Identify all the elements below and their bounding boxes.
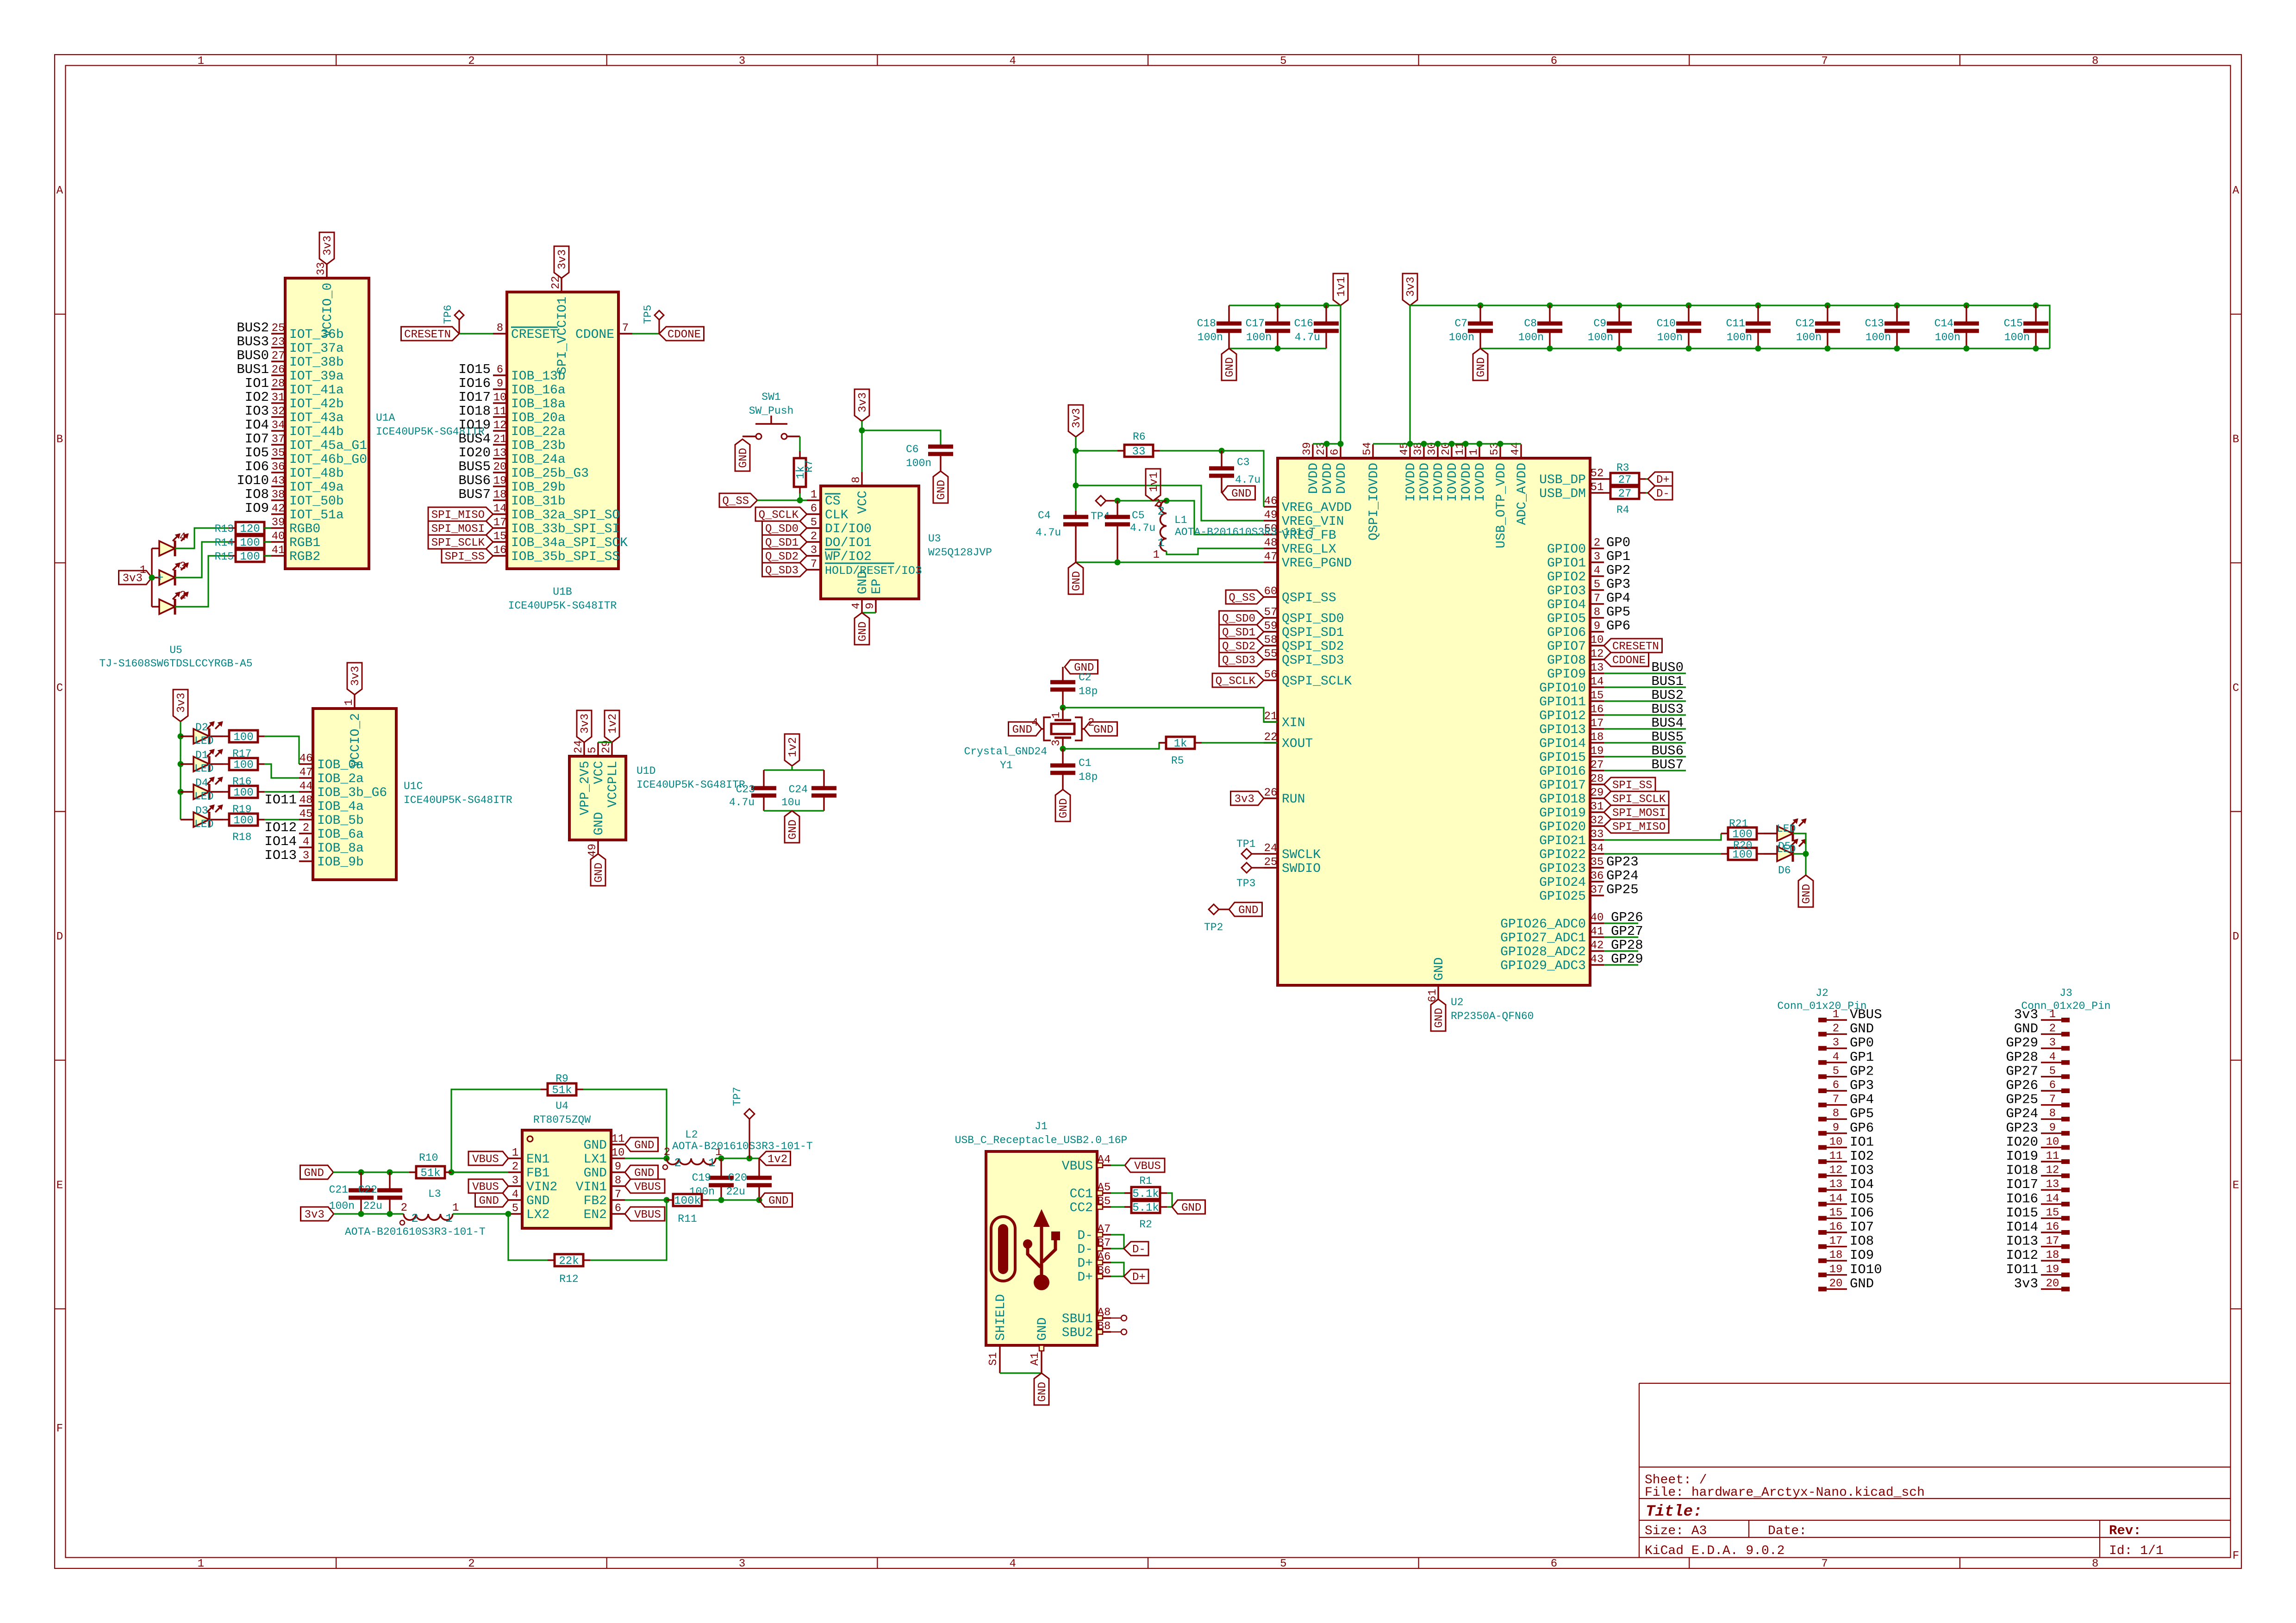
J3 pin 1 3v3 <box>2041 1008 2070 1022</box>
svg-text:SPI_SS: SPI_SS <box>445 551 485 563</box>
net label IO5 <box>245 445 269 460</box>
svg-text:C8: C8 <box>1524 317 1537 330</box>
wire D3/R18 to U1C pin 45 <box>264 819 299 820</box>
U2 pin 39 DVDD <box>1301 442 1321 494</box>
svg-text:18: 18 <box>2046 1249 2059 1262</box>
svg-text:GPIO21: GPIO21 <box>1539 834 1586 848</box>
power symbol 3v3 at VREG <box>1068 405 1083 437</box>
svg-text:6: 6 <box>1833 1079 1839 1092</box>
svg-text:LX1: LX1 <box>584 1152 607 1167</box>
U2 pin 18 GPIO14 <box>1539 731 1604 751</box>
net label IO10 <box>237 473 269 488</box>
svg-text:CLK: CLK <box>825 508 849 522</box>
svg-text:IO16: IO16 <box>458 376 491 391</box>
svg-text:BUS3: BUS3 <box>237 334 269 349</box>
junction D5/D6 cathodes <box>1803 851 1809 857</box>
junction on LED rail <box>178 761 184 767</box>
svg-text:59: 59 <box>1264 620 1278 633</box>
wire D+ pins to label <box>1111 1262 1124 1276</box>
svg-text:18: 18 <box>493 489 507 501</box>
J2 pin 17 IO8 <box>1818 1235 1847 1249</box>
net label GP3 at J2 pin 6 <box>1850 1078 1874 1093</box>
svg-text:SWDIO: SWDIO <box>1282 862 1321 876</box>
power symbol 3v3 at RUN pin <box>1231 791 1264 806</box>
net label VBUS at J2 pin 1 <box>1850 1007 1882 1022</box>
svg-text:HOLD/RESET/IO3: HOLD/RESET/IO3 <box>825 564 922 578</box>
svg-text:10: 10 <box>1591 634 1604 647</box>
svg-text:AOTA-B201610S3R3-101-T: AOTA-B201610S3R3-101-T <box>345 1226 486 1238</box>
U1D pin 5 VCC <box>586 742 606 784</box>
power symbol GND below U3 <box>855 613 869 645</box>
wire R5 to XOUT <box>1202 742 1278 743</box>
J3 pin 8 GP24 <box>2041 1107 2070 1121</box>
junction C22 bottom <box>387 1211 393 1217</box>
svg-text:U1B: U1B <box>553 586 572 598</box>
svg-text:QSPI_SS: QSPI_SS <box>1282 591 1336 605</box>
junction 3v3/R6 <box>1073 448 1079 454</box>
LED D3 <box>181 805 222 830</box>
power symbol 3v3 above U1C <box>347 663 362 695</box>
wire 3v3 rail over C7-C15 <box>1410 305 2050 348</box>
svg-text:IO7: IO7 <box>245 431 269 447</box>
svg-text:GPIO9: GPIO9 <box>1547 667 1586 682</box>
svg-text:GP0: GP0 <box>1606 535 1630 550</box>
svg-text:IOB_34a_SPI_SCK: IOB_34a_SPI_SCK <box>511 536 628 550</box>
svg-text:51k: 51k <box>420 1167 440 1180</box>
svg-text:40: 40 <box>272 530 285 543</box>
svg-text:GP28: GP28 <box>1611 938 1643 953</box>
svg-text:RUN: RUN <box>1282 792 1305 807</box>
svg-text:34: 34 <box>1591 842 1604 855</box>
svg-text:100n: 100n <box>1727 331 1752 343</box>
wire R10 to FB1 <box>451 1171 508 1173</box>
net label IO18 <box>458 404 491 419</box>
svg-text:C9: C9 <box>1593 317 1606 330</box>
junction C10 bottom <box>1686 346 1692 352</box>
svg-text:55: 55 <box>1264 648 1278 660</box>
net label IO7 at J2 pin 16 <box>1850 1219 1874 1235</box>
J1 pin A6 D+ <box>1077 1251 1111 1271</box>
svg-text:CRESETN: CRESETN <box>404 329 451 341</box>
junction C22 top <box>387 1169 393 1175</box>
capacitor C24 value 10u <box>781 770 836 811</box>
svg-text:3v3: 3v3 <box>1071 408 1083 428</box>
svg-text:GP23: GP23 <box>2006 1120 2038 1136</box>
svg-text:A1: A1 <box>1029 1352 1042 1366</box>
capacitor C5 value 4.7u <box>1105 501 1155 562</box>
net label GP29 at J3 pin 3 <box>2006 1035 2038 1051</box>
svg-text:IOVDD: IOVDD <box>1432 463 1446 502</box>
net label GP1 at J2 pin 4 <box>1850 1050 1874 1065</box>
U1C pin 44 IOB_3b_G6 <box>299 780 387 800</box>
net label GP5 <box>1606 604 1630 620</box>
wire R6 left <box>1076 450 1125 451</box>
svg-text:D: D <box>2233 931 2239 943</box>
global label SPI_SCLK <box>1604 791 1669 806</box>
svg-text:10: 10 <box>1829 1136 1843 1148</box>
junction C9 bottom <box>1616 346 1622 352</box>
power symbol GND above C2 <box>1065 660 1098 674</box>
USB-C oval symbol inside J1 <box>991 1217 1015 1281</box>
svg-text:45: 45 <box>299 808 313 821</box>
U4 pin 8 VIN1 <box>576 1175 625 1194</box>
power tag GND at R1 R2 <box>1172 1200 1205 1214</box>
U2 pin 37 GPIO25 <box>1539 884 1604 904</box>
svg-text:C13: C13 <box>1865 317 1884 330</box>
svg-text:IOB_29b: IOB_29b <box>511 480 566 495</box>
svg-text:IOB_33b_SPI_SI: IOB_33b_SPI_SI <box>511 522 620 536</box>
svg-text:GP5: GP5 <box>1606 604 1630 620</box>
U3 pin 6 CLK <box>807 503 849 522</box>
J3 pin 13 IO17 <box>2041 1178 2070 1192</box>
svg-text:File: hardware_Arctyx-Nano.kic: File: hardware_Arctyx-Nano.kicad_sch <box>1645 1486 1925 1500</box>
junction C12 bottom <box>1825 346 1831 352</box>
svg-text:B: B <box>56 434 63 446</box>
svg-text:C20: C20 <box>728 1172 747 1184</box>
capacitor C9 value 100n <box>1588 305 1632 348</box>
U2 pin 12 GPIO8 <box>1547 648 1604 668</box>
svg-text:IO8: IO8 <box>245 487 269 502</box>
svg-text:14: 14 <box>493 503 507 515</box>
svg-text:R15: R15 <box>215 551 234 563</box>
J2 pin 1 VBUS <box>1818 1008 1847 1022</box>
microcontroller U2 RP2350A-QFN60 (symbol body) <box>1278 458 1590 985</box>
U2 pin 50 VREG_FB <box>1264 523 1336 543</box>
svg-text:18: 18 <box>1829 1249 1843 1262</box>
svg-text:GND: GND <box>1071 571 1083 591</box>
global label SPI_MISO <box>428 507 493 522</box>
svg-text:100n: 100n <box>1935 331 1960 343</box>
svg-text:BUS5: BUS5 <box>1651 729 1684 745</box>
svg-text:47: 47 <box>299 766 313 779</box>
svg-text:31: 31 <box>272 392 285 404</box>
svg-text:4: 4 <box>303 836 309 848</box>
svg-text:3: 3 <box>811 544 817 557</box>
U2 pin 59 QSPI_SD1 <box>1264 620 1344 640</box>
U1B pin 17 IOB_33b_SPI_SI <box>493 516 620 536</box>
svg-text:GPIO2: GPIO2 <box>1547 570 1586 585</box>
svg-text:BUS0: BUS0 <box>237 348 269 363</box>
net label GND at J2 pin 2 <box>1850 1021 1874 1037</box>
U1C reference and value <box>404 780 512 806</box>
wire LX1 to L2 <box>625 1157 667 1159</box>
power tag GND at U4 pin4 <box>475 1193 509 1207</box>
wire C2/crystal to XIN <box>1063 708 1278 722</box>
svg-text:2: 2 <box>468 1558 474 1570</box>
svg-text:IOB_6a: IOB_6a <box>317 827 364 842</box>
svg-text:1: 1 <box>452 1202 459 1214</box>
J2 pin 13 IO4 <box>1818 1178 1847 1192</box>
U2 pin 36 GPIO24 <box>1539 870 1604 890</box>
resistor R13 value 120 <box>215 522 271 535</box>
J3 pin 10 IO20 <box>2041 1136 2070 1150</box>
svg-text:D+: D+ <box>1077 1256 1093 1271</box>
svg-text:W25Q128JVP: W25Q128JVP <box>928 547 992 559</box>
svg-text:100: 100 <box>240 537 260 549</box>
svg-text:100: 100 <box>233 731 253 744</box>
junction at U5 common anode <box>149 575 155 581</box>
power symbol 1v2 above U1D <box>605 710 619 742</box>
svg-text:16: 16 <box>1829 1221 1843 1233</box>
svg-text:C21: C21 <box>329 1184 348 1196</box>
svg-text:GPIO1: GPIO1 <box>1547 556 1586 571</box>
svg-text:GND: GND <box>1181 1202 1201 1214</box>
svg-text:IOT_50b: IOT_50b <box>289 494 344 509</box>
net label IO14 at J3 pin 16 <box>2006 1219 2038 1235</box>
power symbol 1v1 at VREG output <box>1146 469 1160 501</box>
svg-text:IO14: IO14 <box>2006 1219 2038 1235</box>
svg-text:13: 13 <box>493 447 507 460</box>
U2 pin 22 XOUT <box>1264 731 1313 751</box>
svg-text:IO19: IO19 <box>458 417 491 433</box>
J2 pin 18 IO9 <box>1818 1249 1847 1263</box>
svg-text:1: 1 <box>811 489 817 501</box>
svg-text:51: 51 <box>1591 481 1604 494</box>
U1D pin 24 VPP_2V5 <box>573 740 593 815</box>
svg-text:IOB_24a: IOB_24a <box>511 453 566 467</box>
svg-text:38: 38 <box>272 489 285 501</box>
svg-text:BUS1: BUS1 <box>237 362 269 377</box>
svg-text:36: 36 <box>1591 870 1604 883</box>
svg-text:Y1: Y1 <box>1000 759 1013 771</box>
resistor R18 value 100 <box>211 814 265 843</box>
svg-text:12: 12 <box>1829 1164 1843 1177</box>
svg-text:5: 5 <box>2049 1065 2056 1077</box>
svg-text:4: 4 <box>1594 565 1600 577</box>
svg-text:49: 49 <box>1264 509 1278 522</box>
wire TP4/C5/1v1/L1 node <box>1117 500 1167 501</box>
U1A pin 34 IOT_44b <box>271 419 344 439</box>
junction LX1/L2/R9 <box>664 1156 670 1162</box>
svg-text:GND: GND <box>592 812 606 835</box>
svg-text:32: 32 <box>1591 815 1604 827</box>
svg-text:IOT_37a: IOT_37a <box>289 342 344 356</box>
junction IOVDD rail <box>1463 441 1469 447</box>
svg-text:GND: GND <box>1093 724 1113 736</box>
junction on LED rail <box>178 734 184 740</box>
inductor L1 AOTA-B201610S3R3-101-T <box>1153 497 1316 561</box>
junction FB2/R11 <box>664 1197 670 1203</box>
svg-text:1: 1 <box>708 1156 716 1170</box>
svg-text:C16: C16 <box>1294 317 1313 330</box>
U1C pin 46 IOB_0a <box>299 752 364 772</box>
svg-text:41: 41 <box>1591 926 1604 938</box>
svg-text:R2: R2 <box>1139 1219 1152 1231</box>
global label CDONE at GPIO8 <box>1604 653 1649 667</box>
U2 pin 16 GPIO12 <box>1539 703 1604 723</box>
svg-text:J3: J3 <box>2059 987 2072 999</box>
U1C pin 2 IOB_6a <box>299 822 364 842</box>
capacitor C15 value 100n <box>2004 305 2048 348</box>
svg-text:USB_OTP_VDD: USB_OTP_VDD <box>1494 463 1509 548</box>
global label Q_SD3 <box>1219 653 1264 667</box>
svg-text:16: 16 <box>1591 703 1604 716</box>
svg-text:9: 9 <box>1594 620 1600 633</box>
wire 3v3 to U3 VCC and C6 <box>862 421 941 472</box>
svg-text:13: 13 <box>2046 1178 2059 1191</box>
svg-text:Q_SD2: Q_SD2 <box>1222 640 1255 653</box>
svg-text:41: 41 <box>272 544 285 557</box>
U2 pin 29 GPIO18 <box>1539 787 1604 807</box>
U2 pin 38 IOVDD <box>1412 442 1432 502</box>
svg-text:R6: R6 <box>1133 431 1146 443</box>
U3 reference and value <box>928 533 992 559</box>
svg-text:100n: 100n <box>1796 331 1822 343</box>
wire L1 pin1 to VREG_LX <box>1167 548 1264 554</box>
U2 pin 7 GPIO4 <box>1547 592 1604 612</box>
svg-text:IO14: IO14 <box>264 834 297 849</box>
svg-text:Title:: Title: <box>1646 1503 1702 1521</box>
net label IO14 <box>264 834 297 849</box>
U2 pin 19 GPIO15 <box>1539 745 1604 765</box>
wire R13 to U1A <box>264 527 271 529</box>
svg-text:J2: J2 <box>1816 987 1828 999</box>
svg-text:1: 1 <box>445 1212 453 1225</box>
capacitor C20 value 22u <box>726 1158 772 1200</box>
wire R15 to U1A <box>264 555 271 556</box>
svg-text:7: 7 <box>2049 1094 2056 1106</box>
svg-text:C3: C3 <box>1237 456 1250 468</box>
svg-text:8: 8 <box>615 1175 621 1187</box>
svg-text:+: + <box>156 571 164 585</box>
svg-text:IO15: IO15 <box>2006 1205 2038 1220</box>
U2 pin 2 GPIO0 <box>1547 537 1604 557</box>
J1 pin A1 GND <box>1029 1318 1050 1373</box>
svg-text:4: 4 <box>1009 1558 1016 1570</box>
net label GP0 at J2 pin 3 <box>1850 1035 1874 1051</box>
svg-text:27: 27 <box>1618 474 1632 486</box>
U2 pin 51 USB_DM <box>1539 481 1604 501</box>
svg-text:VIN2: VIN2 <box>526 1180 557 1194</box>
junction C9 top <box>1616 303 1622 309</box>
J2 pin 10 IO1 <box>1818 1136 1847 1150</box>
svg-text:37: 37 <box>1591 884 1604 896</box>
svg-text:6: 6 <box>2049 1079 2056 1092</box>
svg-text:R11: R11 <box>678 1213 697 1225</box>
svg-text:GP2: GP2 <box>1606 563 1630 578</box>
wire U3 GND EP <box>862 612 876 613</box>
svg-text:3v3: 3v3 <box>857 392 869 412</box>
svg-text:GND: GND <box>634 1167 654 1180</box>
svg-text:GND: GND <box>584 1138 607 1153</box>
svg-text:56: 56 <box>1264 669 1278 681</box>
svg-text:CDONE: CDONE <box>1612 654 1646 667</box>
J3 pin 6 GP26 <box>2041 1079 2070 1093</box>
svg-text:U1C: U1C <box>404 780 423 792</box>
svg-text:GND: GND <box>304 1167 324 1180</box>
net label GP25 <box>1606 882 1639 897</box>
U2 pin 43 GPIO29_ADC3 <box>1500 953 1604 973</box>
svg-text:Q_SD0: Q_SD0 <box>1222 613 1255 625</box>
svg-text:17: 17 <box>1591 717 1604 730</box>
svg-text:SHIELD: SHIELD <box>994 1294 1008 1341</box>
svg-text:19: 19 <box>493 475 507 487</box>
U2 pin 58 QSPI_SD2 <box>1264 634 1344 654</box>
power tag GND at input caps <box>300 1165 334 1180</box>
svg-text:IOB_16a: IOB_16a <box>511 383 566 398</box>
svg-text:1v1: 1v1 <box>1148 472 1160 492</box>
svg-text:IO20: IO20 <box>2006 1134 2038 1150</box>
global label Q_SS <box>719 493 757 508</box>
svg-text:GND: GND <box>787 820 799 839</box>
U3 pin 2 DO/IO1 <box>807 530 872 550</box>
capacitor C1 value 18p <box>1050 749 1098 790</box>
wire 3v3 rail to IOVDD pins <box>1373 443 1521 444</box>
power symbol 3v3 above U1A <box>319 232 334 264</box>
svg-text:8: 8 <box>850 477 863 483</box>
svg-text:Q_SD1: Q_SD1 <box>765 537 799 549</box>
svg-text:GP6: GP6 <box>1850 1120 1874 1136</box>
J2 pin 4 GP1 <box>1818 1051 1847 1065</box>
power tag GND at U4 pin11 <box>625 1138 658 1152</box>
svg-text:GND: GND <box>1058 798 1070 818</box>
net label BUS2 <box>1651 688 1684 703</box>
svg-text:C24: C24 <box>789 784 808 796</box>
svg-text:1: 1 <box>1468 449 1480 455</box>
net label IO6 at J2 pin 15 <box>1850 1205 1874 1220</box>
net label IO17 at J3 pin 13 <box>2006 1177 2038 1192</box>
net label GP3 <box>1606 577 1630 592</box>
capacitor C2 value 18p <box>1050 667 1098 708</box>
junction L1 pin 2 <box>1164 498 1170 504</box>
svg-text:IOB_13b: IOB_13b <box>511 369 566 384</box>
junction C14 bottom <box>1964 346 1970 352</box>
svg-text:GND: GND <box>1224 357 1236 377</box>
FPGA U1A ICE40UP5K-SG48ITR bank 0 (symbol body) <box>285 278 369 569</box>
svg-text:GP23: GP23 <box>1606 854 1639 870</box>
U2 pin 9 GPIO6 <box>1547 620 1604 640</box>
svg-text:4: 4 <box>1009 55 1016 68</box>
svg-text:13: 13 <box>1829 1178 1843 1191</box>
svg-text:S1: S1 <box>987 1352 1000 1366</box>
net label IO1 <box>245 376 269 391</box>
U1B pin 14 IOB_32a_SPI_SO <box>493 503 620 522</box>
svg-text:2: 2 <box>468 55 474 68</box>
net label GND at J2 pin 20 <box>1850 1276 1874 1291</box>
svg-text:GP27: GP27 <box>2006 1063 2038 1079</box>
U1A pin 37 IOT_45a_G1 <box>271 433 367 453</box>
svg-text:GP2: GP2 <box>1850 1063 1874 1079</box>
svg-text:BUS4: BUS4 <box>1651 715 1684 731</box>
J3 pin 9 GP23 <box>2041 1122 2070 1136</box>
svg-text:100n: 100n <box>1865 331 1891 343</box>
junction C16 top <box>1323 303 1329 309</box>
svg-text:BUS5: BUS5 <box>458 459 491 474</box>
wire D- pins to label <box>1111 1235 1124 1249</box>
svg-text:R3: R3 <box>1616 462 1629 474</box>
svg-text:VBUS: VBUS <box>1062 1159 1093 1174</box>
J3 pin 17 IO13 <box>2041 1235 2070 1249</box>
global label Q_SCLK <box>1212 673 1264 688</box>
svg-text:CS: CS <box>825 494 841 509</box>
wire 1v2 rail over C23 C24 <box>764 766 824 770</box>
svg-text:GPIO28_ADC2: GPIO28_ADC2 <box>1500 945 1586 959</box>
U2 pin 21 XIN <box>1264 710 1305 730</box>
net label GP0 <box>1606 535 1630 550</box>
svg-text:26: 26 <box>1264 787 1278 799</box>
svg-text:EP: EP <box>870 578 884 594</box>
svg-text:IO2: IO2 <box>1850 1149 1874 1164</box>
svg-text:Q_SD3: Q_SD3 <box>1222 654 1255 667</box>
svg-text:100: 100 <box>240 551 260 563</box>
junction C15 top <box>2033 303 2039 309</box>
power tag VBUS at VIN2 <box>468 1179 508 1194</box>
net label 3v3 at J3 pin 20 <box>2014 1276 2038 1291</box>
net label IO9 at J2 pin 18 <box>1850 1248 1874 1263</box>
svg-text:42: 42 <box>272 503 285 515</box>
U1C pin 4 IOB_8a <box>299 836 364 856</box>
svg-text:IOT_51a: IOT_51a <box>289 508 344 522</box>
